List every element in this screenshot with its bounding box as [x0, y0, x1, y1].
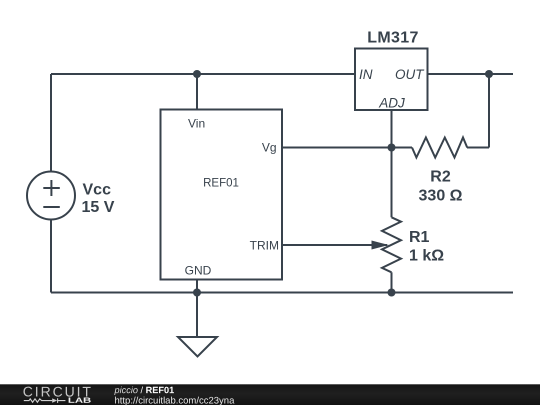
wire TRIM to R1 wiper — [282, 244, 387, 246]
svg-text:GND: GND — [185, 264, 212, 278]
svg-text:330 Ω: 330 Ω — [419, 188, 463, 205]
logo resistor squiggle — [24, 398, 66, 403]
wire R1 bottom lead — [391, 272, 393, 292]
wire LM317 ADJ pin drop — [391, 110, 393, 148]
junction node at Vin tap — [193, 70, 201, 78]
junction node GND rail — [193, 289, 201, 297]
wire bottom rail — [51, 292, 513, 294]
wire Vcc top lead — [50, 74, 52, 172]
voltage source minus sign — [43, 206, 60, 208]
ground symbol — [178, 337, 217, 357]
logo diode triangle — [52, 398, 57, 402]
potentiometer R1 zigzag — [382, 217, 401, 272]
wire top rail left segment — [51, 73, 197, 75]
svg-text:piccio / REF01: piccio / REF01 — [113, 385, 174, 395]
wire R2 left lead — [392, 147, 413, 149]
svg-text:OUT: OUT — [395, 67, 425, 82]
svg-text:REF01: REF01 — [203, 178, 239, 190]
svg-text:R2: R2 — [430, 169, 451, 186]
voltage source plus sign — [43, 187, 60, 189]
svg-text:ADJ: ADJ — [378, 96, 405, 111]
voltage source V1 circle — [27, 172, 75, 220]
wire node to R1 top — [391, 148, 393, 218]
IC LM317 box U1 — [355, 49, 428, 111]
resistor R2 zigzag — [412, 138, 467, 158]
footer black bar — [0, 384, 540, 405]
svg-text:15 V: 15 V — [82, 199, 115, 216]
svg-text:TRIM: TRIM — [250, 239, 279, 253]
svg-text:1 kΩ: 1 kΩ — [409, 248, 444, 265]
wire REF01 GND pin drop — [196, 280, 198, 293]
wire Vg from REF01 to node — [282, 147, 392, 149]
wire ground stem — [196, 293, 198, 338]
potentiometer R1 wiper arrow — [372, 241, 390, 250]
svg-text:LAB: LAB — [68, 396, 92, 405]
svg-text:http://circuitlab.com/cc23yna: http://circuitlab.com/cc23yna — [114, 395, 235, 406]
wire LM317 OUT — [428, 73, 514, 75]
wire output down to R2 right — [488, 74, 490, 148]
svg-text:LM317: LM317 — [367, 30, 419, 47]
wire Vcc bottom lead — [50, 220, 52, 293]
wire R2 right lead — [467, 147, 489, 149]
svg-text:R1: R1 — [409, 229, 430, 246]
svg-text:Vcc: Vcc — [83, 182, 112, 199]
IC REF01 box — [161, 110, 283, 280]
junction node R1 bottom — [388, 289, 396, 297]
wire REF01 Vin pin drop — [196, 74, 198, 110]
svg-text:IN: IN — [359, 67, 373, 82]
svg-text:Vg: Vg — [262, 141, 277, 155]
wire top rail to LM317 IN — [197, 73, 355, 75]
junction node ADJ/Vg/R2/R1 — [388, 144, 396, 152]
svg-text:Vin: Vin — [188, 117, 205, 131]
junction node at output — [485, 70, 493, 78]
